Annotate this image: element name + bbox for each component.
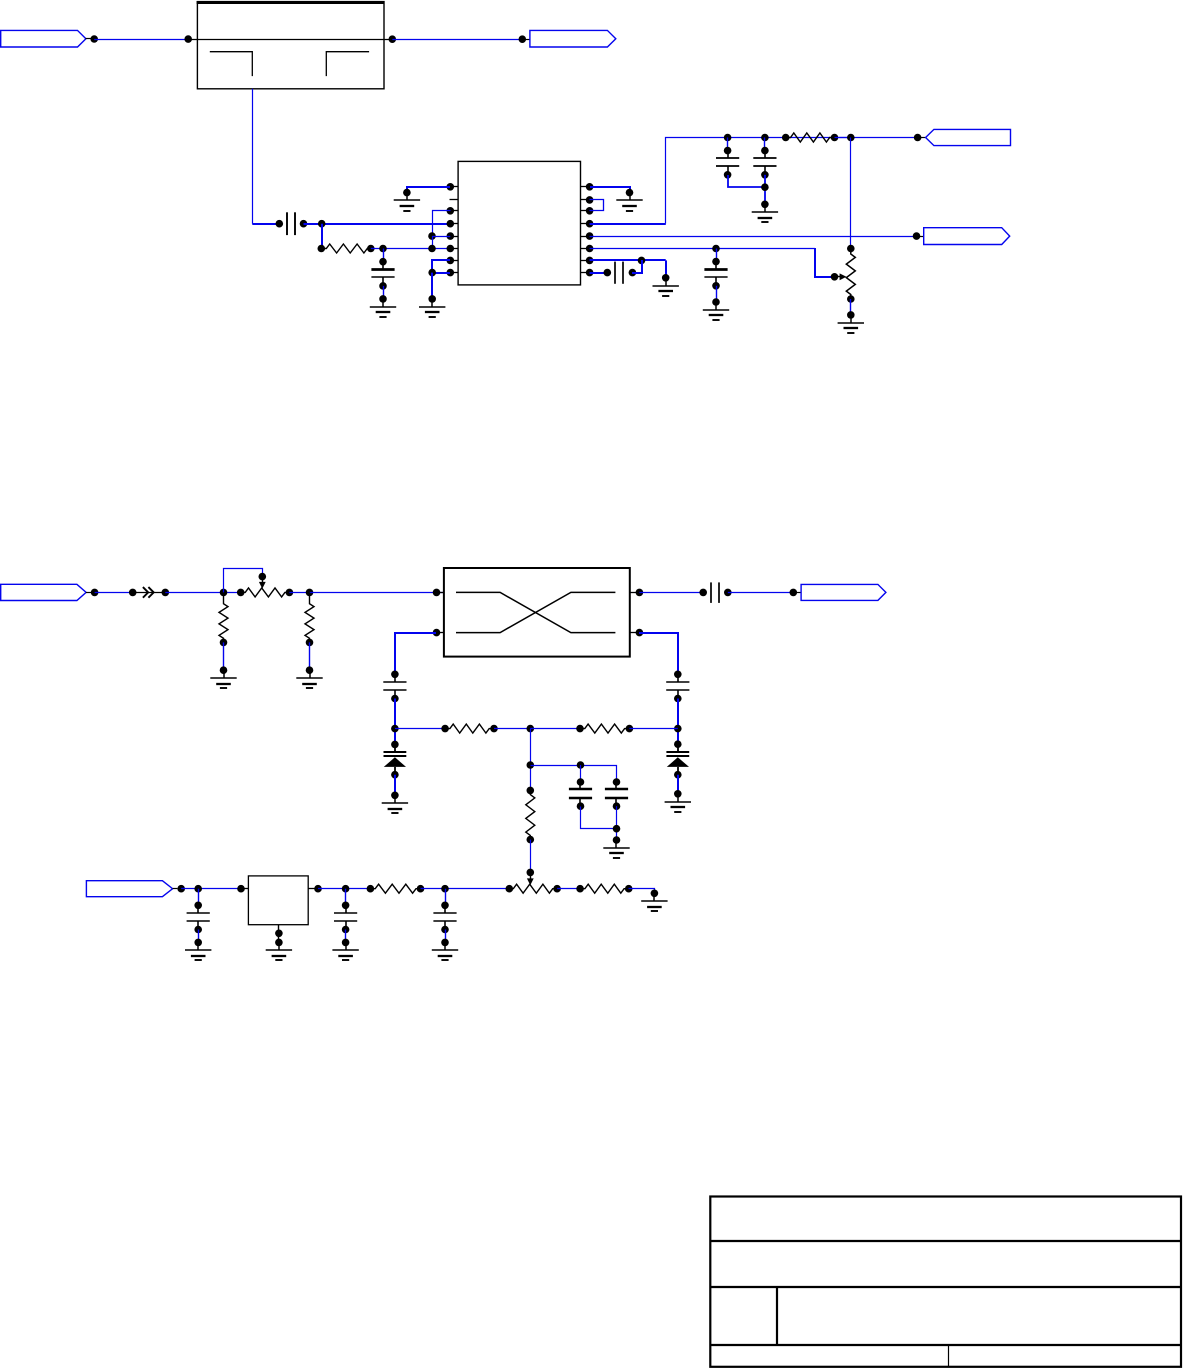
wire U1 pin1 to ground	[407, 187, 450, 193]
capacitor C10	[569, 778, 592, 810]
wire N14 to C3	[727, 138, 729, 151]
ground below C4	[752, 201, 778, 223]
wire N43 down	[530, 729, 532, 791]
wire N19 down to trimmer	[850, 138, 852, 249]
junction dot N15	[761, 134, 769, 142]
resistor R5	[445, 724, 494, 733]
ground below C13	[332, 939, 358, 960]
wire N51 to C12	[198, 889, 200, 906]
wire U1 pin7-pin8 loop	[432, 260, 450, 273]
resistor R6	[580, 724, 629, 733]
junction dot N5	[276, 220, 284, 228]
trimmer RV1 wiper arrow	[835, 273, 847, 280]
capacitor C9	[666, 671, 689, 703]
U1 right pin 16 stub	[581, 269, 594, 277]
wire N50 right	[181, 888, 241, 890]
wire C14 to ground	[445, 930, 447, 943]
junction dot N49	[527, 869, 535, 877]
T1 left contact	[210, 52, 253, 76]
junction dot N14	[724, 134, 732, 142]
junction dot N36	[699, 589, 707, 597]
wire N52 to C13	[345, 889, 347, 906]
junction dot N41	[441, 725, 449, 733]
wire C3 bottom to C4 net	[728, 175, 765, 187]
resistor R4 (to ground)	[305, 592, 314, 642]
ground at U1 pin9	[616, 189, 642, 211]
wire R8 to RV3	[421, 888, 510, 890]
capacitor C5	[704, 258, 727, 290]
wire up to VCC rail	[666, 138, 851, 224]
resistor R7 (vertical)	[526, 790, 535, 839]
U1 right pin 14 stub	[581, 245, 594, 253]
X1 pin stub in-bot	[437, 632, 444, 634]
wire X1 in-bot to C8	[395, 633, 436, 674]
wire T1 bottom down	[252, 89, 254, 224]
U1 left pin 8 stub	[447, 269, 459, 277]
wire U1 pin12 right	[590, 223, 666, 225]
junction dot N31	[129, 589, 137, 597]
junction dot N20	[914, 134, 922, 142]
U1 left pin 6 stub	[447, 245, 459, 253]
wire N11 down	[432, 236, 434, 248]
junction dot N21	[913, 232, 921, 240]
junction dot N23	[831, 273, 839, 281]
U1 right pin 11 stub	[581, 207, 594, 215]
wire R3 to ground	[223, 642, 225, 670]
ground at U1 pin1	[394, 189, 420, 211]
wire C13 to ground	[345, 930, 347, 943]
wire RV1 to ground	[850, 299, 852, 315]
wire C8 down to D1	[394, 699, 396, 745]
capacitor C11	[605, 778, 628, 810]
crossover block X1 box	[444, 568, 630, 657]
pot RV2 wiper arrow	[259, 577, 266, 589]
X1 pin dot out-top	[636, 589, 644, 597]
title block divider 3	[710, 1344, 1181, 1346]
pot RV3 left dot	[506, 885, 514, 893]
junction dot N10	[379, 245, 387, 253]
junction dot N37	[724, 589, 732, 597]
capacitor C6 (series)	[615, 262, 623, 284]
R7 top dot	[527, 787, 535, 795]
wire R6 to N40	[629, 728, 677, 730]
diode D1	[384, 741, 407, 779]
junction dot N44	[576, 725, 584, 733]
pot RV2 right dot	[286, 589, 294, 597]
wire X1 out to C7	[639, 592, 703, 594]
capacitor C2	[371, 258, 394, 290]
U2 right pin	[308, 885, 322, 893]
capacitor C1 (series)	[287, 212, 295, 235]
junction dot N38	[790, 589, 798, 597]
wire C12 to ground	[198, 930, 200, 943]
junction dot N39	[391, 725, 399, 733]
connector tag J3 (points left)	[926, 129, 1011, 145]
wire R5 to N43	[494, 728, 530, 730]
wire C2 to ground	[383, 286, 385, 299]
junction dot N51	[194, 885, 202, 893]
title block divider 2	[710, 1286, 1181, 1288]
wire N32 to pot net	[165, 592, 240, 594]
T1 right contact	[326, 52, 369, 76]
wire U1 pin3 to pin5 net	[433, 211, 451, 237]
wire U1 pin10-pin11 jumper	[590, 200, 604, 211]
junction dot N7	[318, 220, 326, 228]
wire N35 to X1	[310, 592, 444, 594]
U2 left pin	[237, 885, 248, 893]
junction dot N2	[184, 35, 192, 43]
ground below C2	[370, 295, 396, 317]
wire N13 down to ground	[431, 273, 433, 299]
capacitor C7 (series)	[711, 582, 719, 603]
U1 right pin 13 stub	[581, 232, 594, 240]
ground below C5	[703, 298, 729, 320]
junction dot N47	[577, 761, 585, 769]
wire N46 to caps	[531, 766, 617, 783]
X1 pin dot out-bot	[636, 629, 644, 637]
junction dot N40	[674, 725, 682, 733]
wire down to ground	[665, 260, 667, 277]
resistor R8	[370, 884, 420, 893]
wire U1 pin16 to C6	[590, 272, 608, 274]
wire C6 up to pin15 net	[632, 260, 642, 273]
junction dot N30	[91, 589, 99, 597]
junction dot N3	[389, 35, 397, 43]
R4 bottom dot	[306, 639, 314, 647]
junction dot N16	[761, 183, 769, 191]
wire C5 to ground	[716, 286, 718, 302]
junction dot N4	[519, 35, 527, 43]
wire stub N7 down	[321, 224, 323, 249]
junction dot N12	[428, 245, 436, 253]
R3 bottom dot	[220, 639, 228, 647]
wire N30 right	[95, 592, 133, 594]
U1 left pin 4 stub	[447, 220, 459, 228]
wire pin14 to trimmer wiper	[815, 248, 834, 277]
U1 right pin 10 stub	[581, 196, 594, 204]
ground below C14	[432, 939, 458, 960]
ground below D1	[382, 792, 408, 814]
resistor R9	[580, 884, 629, 893]
connector tag J5 (input, middle-left)	[1, 584, 86, 600]
junction dot N56	[576, 885, 584, 893]
junction dot N42	[490, 725, 498, 733]
wire N47 to C10	[580, 765, 582, 782]
X1 pin stub out-bot	[630, 632, 640, 634]
connector tag J6 (output, middle-right)	[801, 584, 886, 600]
junction dot N22	[712, 245, 720, 253]
ground below RV1	[838, 311, 864, 333]
wire N10 down to C2	[383, 249, 385, 262]
wire X1 out-bot to C9	[639, 633, 678, 674]
wire J7 tip to node	[173, 888, 178, 890]
junction dot N19	[847, 134, 855, 142]
title block outer frame	[710, 1197, 1181, 1367]
ground below C11	[603, 836, 629, 858]
resistor R1	[321, 244, 371, 253]
junction dot N43	[527, 725, 535, 733]
junction dot N50	[177, 885, 185, 893]
title block vertical divider A	[776, 1287, 778, 1345]
double chevron symbol	[143, 587, 154, 598]
wire N1 to T1	[94, 39, 188, 41]
wire D2 to ground	[677, 775, 679, 794]
X1 pin stub out-top	[630, 592, 640, 594]
connector tag J4 (points right)	[924, 228, 1010, 245]
junction dot N24	[638, 257, 646, 265]
X1 cross path A	[456, 592, 615, 632]
U1 left pin 7 stub	[447, 257, 459, 265]
wire J1 tip to node	[86, 38, 92, 40]
junction dot N11	[428, 232, 436, 240]
U1 left pin 1 stub	[447, 183, 459, 191]
capacitor C4	[753, 147, 776, 179]
wire R1 to U1 pin 6	[371, 248, 451, 250]
pot RV3 resistor	[509, 884, 557, 893]
junction dot N13	[428, 269, 436, 277]
wire N3 to J2	[392, 39, 522, 41]
pot RV2 resistor	[241, 588, 290, 597]
U1 left pin 2 stub	[450, 199, 459, 201]
wire U1 pin14 right	[590, 248, 815, 250]
title block divider 1	[710, 1240, 1181, 1242]
U1 left pin 3 stub	[447, 207, 459, 215]
wire N55 to C14	[445, 889, 447, 906]
wire to capacitor C1	[252, 223, 279, 225]
junction dot N25	[604, 269, 612, 277]
junction dot N35	[306, 589, 314, 597]
U1 left pin 5 stub	[447, 232, 459, 240]
wire C4 bottom down	[764, 175, 766, 205]
capacitor C3	[716, 147, 739, 179]
wire C7 to tag J6	[728, 592, 794, 594]
wire N20 to tag J3	[918, 137, 926, 139]
wire R7 to RV3 wiper	[530, 840, 532, 873]
wire bias rail	[395, 728, 445, 730]
filter block U2 box	[248, 876, 308, 925]
IC U1 box	[458, 161, 580, 285]
wire N43 to R6	[530, 728, 580, 730]
U2 ground pin	[275, 925, 283, 943]
wire U2 to N52	[318, 888, 370, 890]
X1 pin dot in-top	[433, 589, 441, 597]
wire D1 to ground	[394, 775, 396, 796]
trimmer RV1 top dot	[847, 245, 855, 253]
junction dot N52	[342, 885, 350, 893]
resistor R2	[786, 133, 835, 142]
ground below R3	[210, 666, 236, 688]
pot RV3 right dot	[553, 885, 561, 893]
wire through chevrons	[133, 592, 166, 594]
connector tag J7 (input, bottom-left)	[86, 881, 172, 897]
wire C11 bottom down	[616, 806, 618, 840]
junction dot N55	[441, 885, 449, 893]
junction dot N33	[220, 589, 228, 597]
junction dot N53	[367, 885, 375, 893]
wire R4 to ground	[309, 642, 311, 670]
connector tag J2 (output, top-right)	[530, 30, 616, 47]
junction dot N6	[300, 220, 308, 228]
wire C10 bottom to C11 net	[581, 807, 617, 829]
junction dot N26	[629, 269, 637, 277]
wire C9 down to D2	[677, 699, 679, 745]
X1 pin dot in-bot	[433, 629, 441, 637]
junction dot N32	[162, 589, 170, 597]
junction dot N8	[318, 245, 326, 253]
junction dot N17	[782, 134, 790, 142]
wire C1 to U1 pin 4	[304, 223, 451, 225]
connector tag J1 (input, top-left)	[1, 30, 86, 47]
wire N4 to tag	[522, 39, 530, 41]
ground below pin15 net	[653, 274, 679, 296]
wire RV2 to N35	[289, 592, 309, 594]
ground below U2	[266, 939, 292, 960]
transformer T1 box	[197, 2, 385, 89]
junction dot N9	[367, 245, 375, 253]
X1 cross path B	[456, 592, 615, 632]
wire R2 to N19	[835, 137, 918, 139]
ground below U1 pins 7-8	[419, 295, 445, 317]
U1 right pin 12 stub	[581, 220, 594, 228]
wire U1 pin13 to tag J4	[590, 236, 917, 238]
diode D2	[666, 740, 689, 778]
wire U1 pin9 to ground	[590, 187, 630, 193]
trimmer RV1 bottom dot	[847, 295, 855, 303]
wire through transformer T1 (black)	[188, 39, 392, 41]
pot RV2 left dot	[237, 589, 245, 597]
ground below C12	[185, 939, 211, 960]
junction dot N46	[527, 761, 535, 769]
capacitor C8	[383, 671, 406, 703]
wire pin5 stub	[432, 236, 450, 238]
wire N21 stub	[917, 236, 924, 238]
trimmer RV1 resistor	[846, 249, 855, 300]
resistor R3 (to ground)	[219, 592, 228, 642]
capacitor C12	[187, 902, 210, 934]
junction dot N1	[90, 35, 98, 43]
wire N38 stub	[793, 592, 801, 594]
ground below D2	[665, 790, 691, 812]
junction dot N45	[626, 725, 634, 733]
wire J5 tip to node	[86, 592, 91, 594]
capacitor C13	[334, 902, 357, 934]
wire R9 to ground	[629, 889, 655, 894]
title block vertical divider B	[948, 1345, 950, 1367]
wire N15 to C4	[764, 138, 766, 151]
wire N22 to C5	[716, 249, 718, 262]
junction dot N18	[831, 134, 839, 142]
X1 pin stub in-top	[437, 592, 444, 594]
junction dot N34	[259, 573, 267, 581]
U1 right pin 9 stub	[581, 183, 594, 191]
capacitor C14	[433, 902, 456, 934]
ground below R4	[296, 666, 322, 688]
junction dot N54	[417, 885, 425, 893]
wire wiper loop	[224, 569, 263, 593]
wire RV3 to R9	[557, 888, 580, 890]
U1 right pin 15 stub	[581, 257, 594, 265]
junction dot N57	[625, 885, 633, 893]
pot RV3 wiper arrow	[527, 872, 534, 885]
ground at R9 right	[641, 890, 667, 912]
R7 bottom dot	[527, 836, 535, 844]
junction dot N48	[613, 825, 621, 833]
wire U1 pin15 right	[590, 259, 666, 261]
